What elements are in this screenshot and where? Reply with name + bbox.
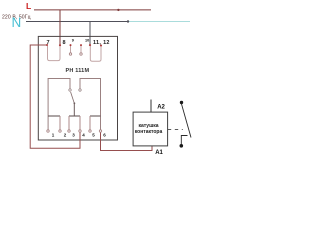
junction on L bus — [117, 9, 119, 11]
bridge 1-2 — [48, 115, 60, 117]
svg-text:L: L — [26, 1, 31, 11]
svg-text:8: 8 — [63, 40, 66, 46]
pin 4 circle — [79, 130, 81, 132]
junction on N bus — [127, 20, 129, 22]
pin 10 stem — [80, 46, 82, 53]
switch common wire — [73, 104, 75, 117]
pin 1 circle — [47, 130, 49, 132]
pin 11 dot — [89, 44, 91, 46]
svg-text:9: 9 — [72, 38, 74, 42]
wire L drop to pin 8 — [59, 10, 61, 45]
pin 8 dot — [59, 44, 61, 46]
internal riser right (pins 5-6 to NO contact) — [80, 79, 101, 131]
wire L bus — [34, 9, 151, 11]
NC fixed contact circle — [69, 89, 71, 91]
relay U1 body — [38, 36, 117, 140]
pin 10 dot — [80, 44, 82, 46]
pin 6 circle — [99, 130, 101, 132]
bridge 7-8 — [48, 46, 61, 61]
switch lever — [71, 92, 75, 103]
mechanical link dashed — [168, 128, 183, 130]
wire N bus dark part — [26, 21, 129, 23]
contactor coil K1 box — [133, 112, 168, 146]
svg-text:N: N — [12, 15, 22, 30]
svg-text:11, 12: 11, 12 — [93, 40, 110, 46]
bridge 11-12 — [90, 46, 101, 61]
svg-text:A1: A1 — [155, 150, 163, 156]
pin 12 dot — [100, 44, 102, 46]
internal riser left (pins 1-2 to NC contact) — [48, 79, 70, 131]
svg-text:РН 111М: РН 111М — [66, 68, 90, 74]
wire N bus cyan part — [129, 21, 191, 23]
pin 2 circle — [59, 130, 61, 132]
lever pivot dot — [74, 102, 76, 104]
contact bottom terminal — [180, 144, 184, 148]
contact lever — [182, 104, 192, 138]
pin 9 stem — [70, 46, 72, 53]
svg-text:A2: A2 — [157, 105, 165, 111]
NO fixed contact circle — [79, 89, 81, 91]
pin 9 dot — [70, 44, 72, 46]
wire A2 stub — [150, 100, 152, 113]
svg-text:контактора: контактора — [135, 129, 163, 135]
bridge 5-6 — [90, 115, 101, 117]
svg-text:7: 7 — [47, 40, 50, 46]
contact fixed side — [181, 136, 187, 145]
bridge 3-4 — [69, 115, 80, 117]
wire pin7 to pin4 — [30, 45, 80, 148]
wire N drop to pin 11 — [89, 22, 91, 46]
svg-text:10: 10 — [85, 38, 89, 42]
pin 3 circle — [68, 130, 70, 132]
wire pin6 to A1 — [101, 131, 153, 151]
pin 7 dot — [46, 44, 48, 46]
pin 5 circle — [89, 130, 91, 132]
contactor contact K1.1 top terminal — [180, 101, 183, 104]
